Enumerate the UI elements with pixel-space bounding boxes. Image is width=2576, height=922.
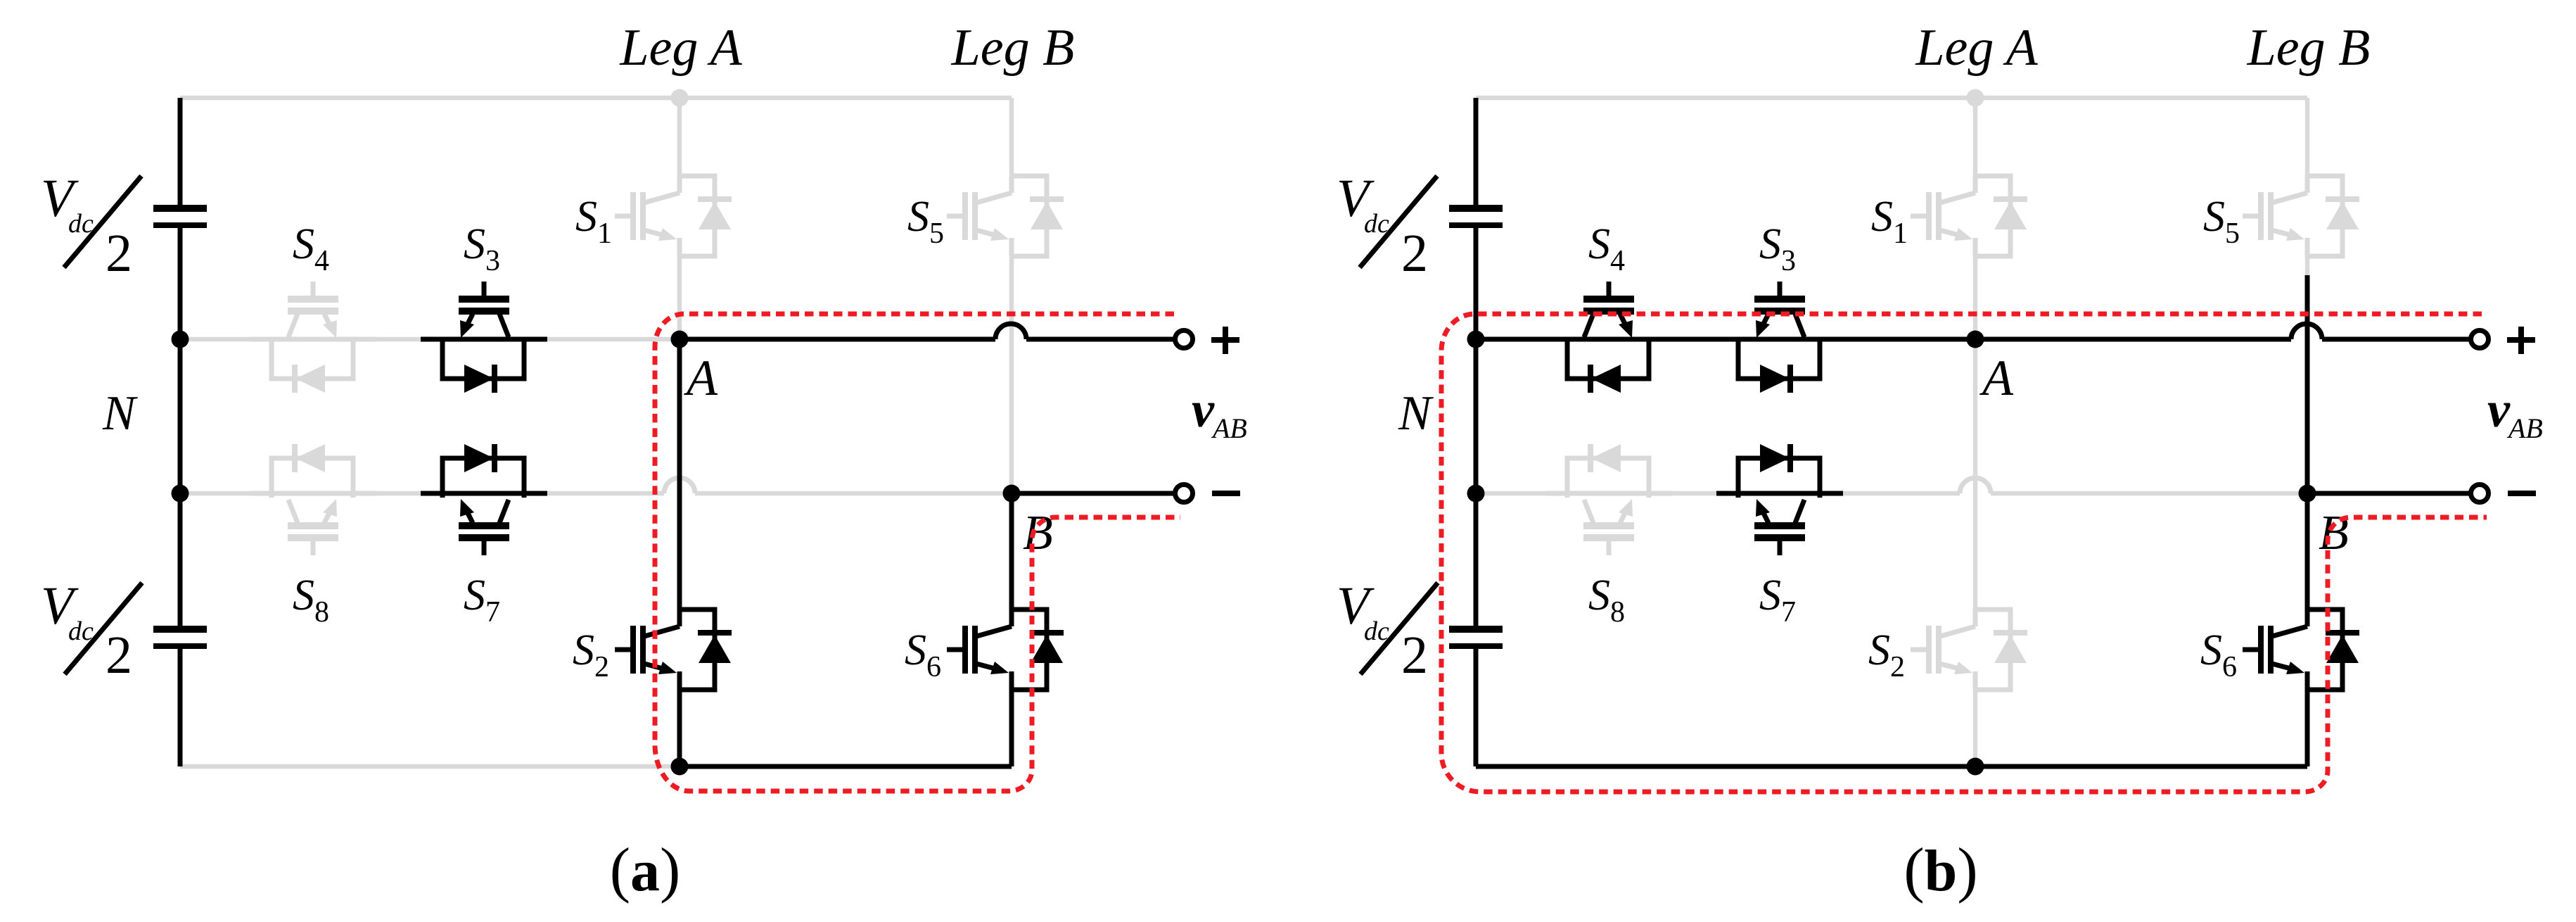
- label Vdc/2 upper (a): [41, 169, 141, 283]
- svg-text:N: N: [102, 386, 138, 441]
- wire hop node-B rail over leg A (a): [664, 478, 695, 493]
- transistor S8 (off): [250, 444, 376, 555]
- wire node B to - terminal (b): [2307, 491, 2471, 496]
- svg-text:(b): (b): [1904, 836, 1977, 904]
- wire hop output line over leg B (b): [2291, 324, 2322, 339]
- wire node-A rail N to A (a): [180, 337, 680, 342]
- wire leg B lower (b): [2305, 493, 2310, 766]
- svg-text:S7: S7: [1759, 571, 1796, 629]
- svg-text:(a): (a): [610, 836, 681, 904]
- red dashed current path (a): [655, 314, 1180, 791]
- svg-text:S6: S6: [2200, 626, 2237, 683]
- node bottom rail leg A (a): [671, 758, 689, 776]
- wire leg B upper (a): [1009, 98, 1014, 493]
- wire bottom rail right (a): [680, 764, 1012, 769]
- transistor S3 (on): [1716, 282, 1843, 393]
- svg-text:A: A: [1979, 350, 2014, 406]
- svg-text:S1: S1: [575, 193, 612, 250]
- wire bottom rail left gray (a): [180, 764, 680, 769]
- svg-text:v: v: [2487, 381, 2511, 438]
- capacitor Vdc/2 upper (b): [1449, 208, 1503, 225]
- terminal - (b): [2471, 485, 2489, 503]
- transistor S5 (off): [2243, 176, 2359, 256]
- svg-text:v: v: [1192, 381, 1215, 438]
- svg-text:S2: S2: [1868, 626, 1905, 683]
- svg-text:N: N: [1398, 386, 1434, 441]
- label Vdc/2 upper (b): [1337, 169, 1437, 283]
- svg-text:S1: S1: [1871, 193, 1908, 250]
- svg-text:S4: S4: [293, 220, 329, 277]
- svg-text:S8: S8: [293, 571, 329, 629]
- transistor S7 (on): [1716, 444, 1843, 555]
- node N upper (b): [1467, 331, 1485, 348]
- wire bottom rail (b): [1476, 764, 2307, 769]
- transistor S8 (off): [1545, 444, 1672, 555]
- wire node-B rail N to B (b): [1476, 491, 2307, 496]
- svg-text:S5: S5: [2203, 193, 2240, 250]
- wire top rail (b): [1476, 96, 2307, 101]
- svg-text:Leg A: Leg A: [619, 19, 742, 77]
- transistor S1 (off): [1911, 176, 2027, 256]
- svg-text:Leg A: Leg A: [1915, 19, 2038, 77]
- svg-text:2: 2: [106, 626, 132, 685]
- node N upper (a): [172, 331, 189, 348]
- svg-text:S3: S3: [1759, 220, 1796, 277]
- wire DC-link rail (b): [1474, 98, 1479, 766]
- svg-text:2: 2: [1401, 224, 1428, 283]
- minus sign (b): [2508, 491, 2536, 496]
- transistor S6 (on): [947, 610, 1064, 690]
- node bottom rail leg A (b): [1967, 758, 1984, 776]
- svg-text:S8: S8: [1588, 571, 1625, 629]
- transistor S4 (on): [1545, 282, 1672, 393]
- terminal - (a): [1175, 485, 1193, 503]
- wire hop node-B rail over leg A (b): [1960, 478, 1991, 493]
- transistor S7 (on): [421, 444, 547, 555]
- transistor S6 (on): [2243, 610, 2359, 690]
- wire node A to + terminal (a): [680, 337, 1175, 342]
- wire leg A upper (a): [677, 98, 682, 339]
- svg-text:S4: S4: [1588, 220, 1625, 277]
- transistor S2 (on): [615, 610, 732, 690]
- svg-text:Leg B: Leg B: [951, 19, 1075, 77]
- node B (a): [1003, 485, 1021, 503]
- terminal + (a): [1175, 331, 1193, 348]
- node top rail / leg A junction (a): [671, 89, 689, 107]
- wire leg B upper (b): [2305, 98, 2310, 275]
- plus sign (b): [2507, 327, 2535, 354]
- wire node-B rail N to B (a): [180, 491, 1012, 496]
- plus sign (a): [1211, 327, 1239, 354]
- svg-text:A: A: [684, 350, 718, 406]
- node A (b): [1967, 331, 1984, 348]
- wire leg B lower (a): [1009, 493, 1014, 766]
- capacitor Vdc/2 lower (b): [1449, 629, 1503, 646]
- svg-text:AB: AB: [2506, 412, 2543, 444]
- wire leg B middle (b): [2305, 275, 2310, 493]
- label Vdc/2 lower (a): [41, 576, 142, 685]
- capacitor Vdc/2 lower (a): [153, 629, 207, 646]
- svg-text:Leg B: Leg B: [2247, 19, 2371, 77]
- terminal + (b): [2471, 331, 2489, 348]
- svg-text:S2: S2: [573, 626, 609, 683]
- transistor S5 (off): [947, 176, 1064, 256]
- wire DC-link rail (a): [178, 98, 183, 766]
- minus sign (a): [1212, 491, 1240, 496]
- svg-text:S5: S5: [907, 193, 944, 250]
- node A (a): [671, 331, 689, 348]
- node top rail / leg A junction (b): [1967, 89, 1984, 107]
- transistor S2 (off): [1911, 610, 2027, 690]
- svg-text:B: B: [1023, 506, 1053, 560]
- svg-text:AB: AB: [1211, 412, 1247, 444]
- capacitor Vdc/2 upper (a): [153, 208, 207, 225]
- wire top rail (a): [180, 96, 1012, 101]
- node B (b): [2299, 485, 2316, 503]
- wire node B to - terminal (a): [1012, 491, 1175, 496]
- transistor S4 (off): [250, 282, 376, 393]
- transistor S3 (on): [421, 282, 547, 393]
- svg-text:S3: S3: [464, 220, 500, 277]
- wire hop output line over leg B (a): [995, 324, 1026, 339]
- svg-text:2: 2: [106, 224, 132, 283]
- svg-text:B: B: [2319, 506, 2349, 560]
- wire leg A (b): [1973, 98, 1978, 766]
- wire leg A lower (a): [677, 339, 682, 766]
- red dashed current path (b): [1441, 314, 2487, 792]
- svg-text:S6: S6: [905, 626, 941, 683]
- svg-text:2: 2: [1401, 626, 1428, 685]
- node N lower (b): [1467, 485, 1485, 503]
- transistor S1 (off): [615, 176, 732, 256]
- node N lower (a): [172, 485, 189, 503]
- wire node N to node A to + terminal (b): [1476, 337, 2471, 342]
- svg-text:S7: S7: [464, 571, 500, 629]
- label Vdc/2 lower (b): [1337, 576, 1438, 685]
